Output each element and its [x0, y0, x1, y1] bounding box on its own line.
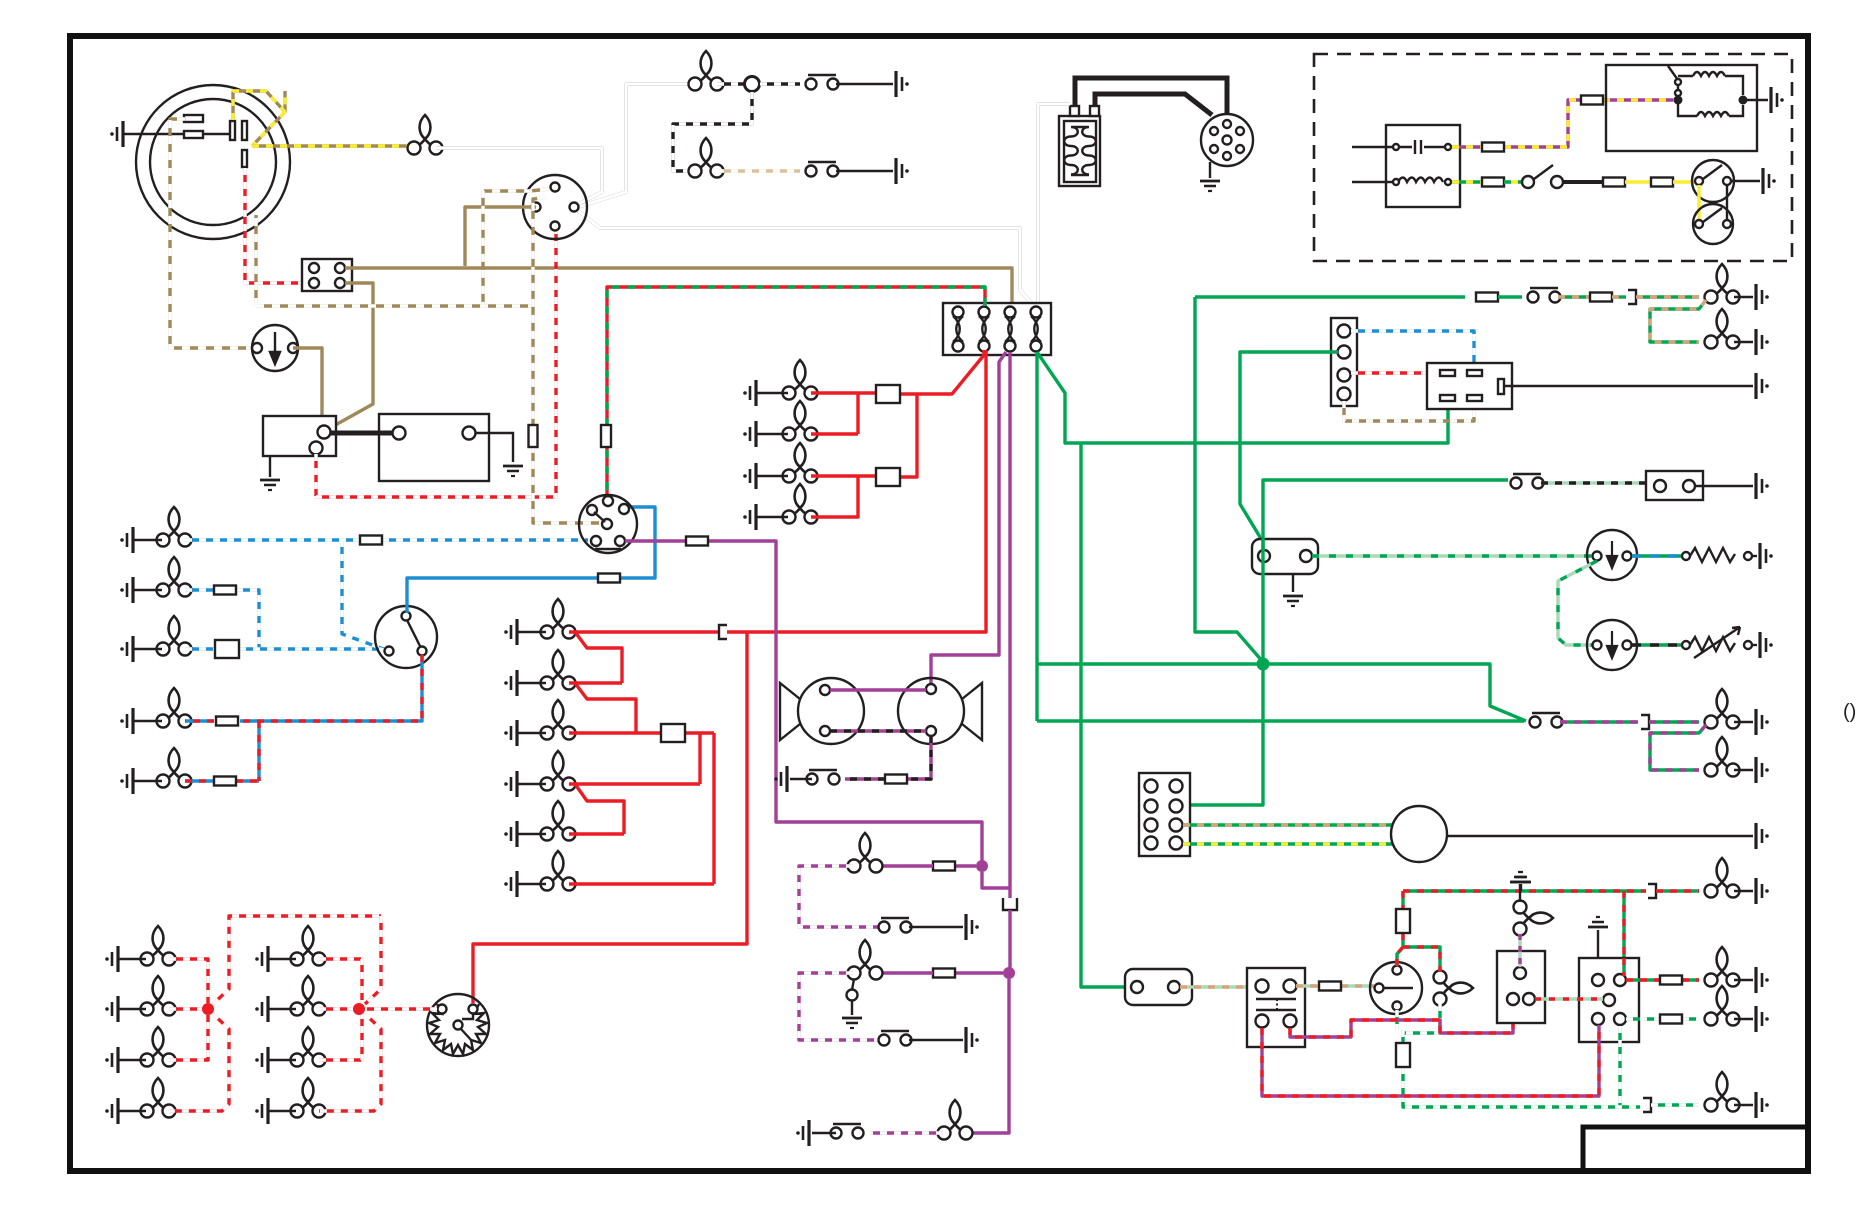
dip lower lever — [1703, 208, 1722, 222]
ignition switch IGN — [523, 175, 587, 239]
fuse A4 — [1031, 307, 1042, 352]
instrument pin bl — [591, 536, 601, 546]
title block — [1583, 1127, 1808, 1171]
lead head lamp C — [133, 648, 162, 650]
wire red/green fusebox to instrument feed — [607, 287, 985, 497]
panel lamp 3 — [783, 443, 818, 483]
chassis ground relay B — [1588, 917, 1608, 927]
wire green/tan 8way to tachometer — [1183, 823, 1392, 826]
ground fuel sender — [1760, 543, 1773, 569]
stop flasher pin L — [438, 1005, 447, 1014]
flasher coil pin L — [1393, 179, 1399, 185]
wire green/tan tail U-link — [1650, 300, 1706, 342]
wire red/white turn column left — [169, 916, 381, 1111]
wire brown/white dynamo F to warning lamp — [170, 119, 254, 348]
boot lamp switch — [831, 1124, 864, 1139]
ground head lamp A — [120, 527, 133, 553]
ground turn lamp mid R — [1756, 967, 1769, 993]
headlamp relay box — [1427, 363, 1512, 409]
coil windings — [1064, 127, 1096, 175]
distributor pin 2 — [1236, 145, 1244, 153]
fuel sender ground lead — [1752, 555, 1757, 557]
connector bulb dynamo output — [408, 115, 443, 155]
lead turn lamp L2 — [118, 1008, 146, 1010]
ground side lamp 4 — [504, 771, 517, 797]
wire red panel lamp bus — [811, 350, 984, 517]
wire brown control box to fusebox A3 — [345, 268, 1012, 306]
dynamo brush blade 2 — [242, 121, 247, 140]
wire green/blue fuel gauge to sender — [1632, 554, 1682, 557]
turn lamp front R ground lead — [1734, 890, 1753, 892]
dynamo brush blade 1 — [230, 121, 235, 140]
flasher relay box — [1247, 968, 1305, 1047]
headlamp dip unit lower — [1693, 204, 1733, 244]
lamp A switch ground lead — [909, 926, 963, 928]
distributor pin 5 — [1210, 127, 1218, 135]
tail lamp 2 ground lead — [1734, 341, 1753, 343]
wire green/red branch to relay B — [1622, 891, 1625, 974]
stop flasher pin C — [454, 1021, 463, 1030]
relay B pin tr — [1614, 974, 1626, 986]
lead turn lamp R1 — [268, 958, 296, 960]
inline fuse head B — [214, 586, 236, 595]
ignition switch pin bottom — [551, 222, 560, 231]
ground turn lamp L2 — [105, 996, 118, 1022]
dip switch pin bl — [385, 647, 394, 656]
lead turn lamp L3 — [118, 1059, 146, 1061]
inline fuse instrument feed — [601, 425, 611, 447]
wire purple/white boot lamp to switch — [870, 1131, 943, 1134]
lead side lamp 2 — [517, 682, 546, 684]
tail switch top — [1528, 288, 1561, 303]
8way hole 1L — [1145, 780, 1158, 793]
turn lamp low R ground lead — [1734, 1018, 1753, 1020]
interior switch — [1530, 713, 1563, 728]
flasher contact dots — [1276, 999, 1278, 1010]
wire mint stabilizer to fuel gauge — [1312, 554, 1592, 557]
wiper switch — [1511, 474, 1544, 489]
battery terminal R — [463, 427, 476, 440]
wire purple fuse to map lamp — [877, 971, 933, 974]
horn left terminal bottom — [820, 726, 830, 736]
stabilizer pin R — [1300, 550, 1312, 562]
ignition warning lamp WL1 — [252, 325, 298, 371]
horn left body — [798, 678, 864, 744]
wire blue instrument to dip switch — [407, 507, 655, 613]
ground tail lamp 1 — [1756, 284, 1769, 310]
horn right flare — [962, 683, 982, 740]
battery box — [379, 414, 489, 481]
ground head lamp E — [120, 768, 133, 794]
panel lamp 4 — [783, 484, 818, 524]
wire purple/red flasher to relays — [1262, 1005, 1599, 1096]
hazard contact pin b — [1675, 90, 1681, 96]
ground lamp A switch — [966, 914, 979, 940]
turn lamp R3 — [291, 1027, 326, 1067]
battery earth lead — [475, 433, 513, 462]
ground head lamp B — [120, 577, 133, 603]
stop flasher lever — [461, 1013, 473, 1041]
wire purple/black horn link bottom — [830, 731, 931, 779]
map lamp lever ground stem — [851, 1001, 853, 1015]
turn lamp R1 — [291, 926, 326, 966]
dip switch pin top — [402, 612, 411, 621]
ignition switch pin right — [570, 203, 579, 212]
dynamo terminal blade D — [184, 131, 203, 138]
fuse A2 — [979, 307, 990, 352]
voltage stabilizer box — [1252, 539, 1318, 574]
instrument pin br — [615, 536, 625, 546]
wire purple junction to horn relay branch — [982, 872, 1010, 888]
hazard relay coil bottom — [1678, 104, 1743, 116]
fuel gauge pin L — [1593, 552, 1602, 561]
lead side lamp 4 — [517, 783, 546, 785]
instrument bar — [595, 548, 621, 550]
bracket interior lamp — [1641, 715, 1649, 729]
ground side lamp 2 — [504, 670, 517, 696]
lead panel lamp 1 — [756, 392, 788, 394]
turn lamp rear R ground lead — [1734, 1104, 1753, 1106]
ground door switch 1 — [896, 71, 909, 97]
wire green/white relay B down — [1618, 1026, 1621, 1107]
ground side lamp 5 — [504, 821, 517, 847]
wire brown/white 4way to relay — [1344, 401, 1474, 421]
temp sender resistor — [1682, 627, 1752, 658]
side lamp 4 — [541, 751, 576, 791]
ground wiper — [1756, 473, 1769, 499]
dip switch pin br — [418, 647, 427, 656]
side lamp 2 — [541, 650, 576, 690]
ground horn switch — [774, 766, 787, 792]
control box terminal 2 — [335, 263, 345, 273]
map lamp lever contact — [847, 990, 858, 1001]
lead head lamp B — [133, 589, 162, 591]
head lamp E — [157, 748, 192, 788]
wire mint/red hazard to relay B — [1535, 997, 1603, 1000]
flasher cap pin R — [1445, 144, 1451, 150]
flasher unit box — [1386, 125, 1460, 207]
wire brown/white ignition to instrument connector b — [533, 197, 600, 523]
wire blue/red dipped beam — [185, 655, 422, 781]
turn lamp L2 — [141, 976, 176, 1016]
wire green/purple bracket to lamp — [1649, 720, 1699, 723]
side lamp 5 — [541, 801, 576, 841]
temp gauge pin L — [1593, 641, 1602, 650]
wire green top run to fuse — [1195, 295, 1465, 298]
flasher pin br — [1284, 1015, 1297, 1028]
dip switch lever — [407, 620, 420, 646]
dynamo D1 inner body — [150, 99, 276, 225]
flasher capacitor — [1398, 140, 1444, 154]
wire brown/white lamp2 to door switch 2 — [717, 169, 800, 172]
solenoid terminal ign — [310, 442, 323, 455]
ground dynamo — [110, 121, 123, 147]
wiper ground lead — [1695, 485, 1753, 487]
inline fuse turn feed — [1396, 909, 1410, 933]
ground interior lamp 1 — [1756, 709, 1769, 735]
lead panel lamp 3 — [756, 475, 788, 477]
dip upper pin L — [1695, 177, 1703, 185]
side lamp 6 — [541, 851, 576, 891]
bracket tail top — [1628, 290, 1636, 304]
inline fuse tail top — [1476, 293, 1498, 302]
4way hole 2 — [1338, 346, 1351, 359]
bracket side lamp feed — [719, 625, 727, 639]
dip upper pin R — [1723, 177, 1731, 185]
8way hole 3R — [1170, 819, 1183, 832]
4way hole 1 — [1338, 325, 1351, 338]
ground turn lamp L3 — [105, 1047, 118, 1073]
flasher pin tr — [1284, 980, 1297, 993]
distributor pin 1 — [1236, 127, 1244, 135]
turn switch pin T — [1393, 966, 1402, 975]
relay blade tr — [1467, 370, 1482, 376]
boot switch ground lead — [812, 1132, 836, 1134]
hazard switch box — [1497, 951, 1545, 1023]
chassis ground stabilizer — [1283, 596, 1303, 606]
head lamp C — [157, 616, 192, 656]
junction dot purple 1 — [976, 860, 988, 872]
flasher cap pin L — [1393, 144, 1399, 150]
wire green/purple switch to bracket — [1560, 720, 1638, 723]
bracket turn lamp rear — [1643, 1098, 1651, 1112]
wire purple/yellow flasher to hazard relay — [1452, 100, 1674, 147]
wire brown warning lamp to solenoid — [293, 348, 322, 424]
inline fuse lamp A — [933, 862, 955, 871]
lead switch2 to ground — [836, 170, 893, 172]
lead side lamp 5 — [517, 833, 546, 835]
door switch 1 — [806, 75, 839, 90]
wire green/red turn feed — [1397, 891, 1440, 972]
inset switch lever — [1534, 165, 1553, 179]
junction dot turn right — [353, 1003, 365, 1015]
fuse A3 — [1005, 307, 1016, 352]
hazard pin BL — [1507, 993, 1519, 1005]
horn right terminal top — [926, 684, 936, 694]
inline fuse side lamps — [661, 724, 685, 742]
wire purple/black fuse to horn switch — [845, 777, 885, 780]
turn indicator warning lamp — [1434, 971, 1474, 1006]
inline fuse turn switch — [1319, 982, 1341, 991]
fuel pump pin L — [1131, 981, 1143, 993]
instrument pin top — [603, 496, 613, 506]
ground relay — [1756, 373, 1769, 399]
connector block 8way — [1139, 773, 1190, 856]
relay B pin br — [1614, 1013, 1626, 1025]
inset switch black lead — [1563, 180, 1603, 184]
headlamp dip unit upper — [1692, 160, 1734, 202]
wire purple dot2 to boot lamp — [973, 979, 1009, 1133]
wire purple/white lamp A loop — [799, 866, 883, 927]
turn lamp low R — [1705, 986, 1740, 1026]
wiper pin L — [1654, 480, 1666, 492]
wire black/white junction to door switch 1 — [760, 82, 800, 85]
wire green riser tail feed — [1195, 297, 1263, 662]
8way hole 1R — [1170, 780, 1183, 793]
turn switch pin B — [1393, 1002, 1402, 1011]
hazard relay contact — [1668, 66, 1678, 96]
hazard pin T — [1514, 967, 1526, 979]
lead side lamp 3 — [517, 732, 546, 734]
svg-text:(): () — [1843, 701, 1856, 723]
dip ground lead — [1731, 180, 1760, 182]
turn switch lever — [1384, 987, 1413, 989]
inline fuse inset 5 — [1651, 178, 1673, 187]
lead turn lamp R2 — [268, 1008, 296, 1010]
ground hazard relay — [1771, 87, 1784, 113]
horn right body — [898, 678, 964, 744]
wire purple connector to dot2 — [1008, 910, 1011, 968]
wire green/black temp gauge to sender — [1632, 643, 1682, 646]
distributor pin 4 — [1210, 145, 1218, 153]
ignition switch pin top — [551, 183, 560, 192]
inline fuse tail top 2 — [1590, 293, 1612, 302]
interior lamp A — [848, 833, 883, 873]
relay blade bl — [1440, 395, 1455, 401]
turn lamp rear R — [1705, 1072, 1740, 1112]
flasher coil — [1398, 178, 1443, 183]
warning lamp terminal L — [252, 343, 262, 353]
control box terminal 1 — [309, 263, 319, 273]
fuel gauge — [1587, 530, 1637, 580]
ground turn lamp R4 — [255, 1098, 268, 1124]
relay blade br — [1467, 395, 1482, 401]
lead head lamp D — [133, 720, 162, 722]
interior lamp 2 ground lead — [1734, 769, 1753, 771]
wire black/white junction to lamp 2 — [673, 92, 752, 171]
inline fuse panel lamps b — [876, 468, 900, 486]
inline fuse purple feed — [686, 537, 708, 546]
inline fuse instrument brown feed — [529, 425, 538, 447]
wire green fusebox trunk — [1037, 352, 1448, 721]
relay B pin m — [1603, 994, 1615, 1006]
wire green/white bracket to rear lamp — [1651, 1103, 1699, 1106]
instrument pin ur — [619, 504, 629, 514]
panel lamp 1 — [783, 360, 818, 400]
tachometer ground lead — [1447, 835, 1753, 837]
inset switch contact a — [1522, 176, 1534, 188]
distributor — [1201, 114, 1253, 166]
lead turn lamp R4 — [268, 1110, 296, 1112]
lead head lamp E — [133, 780, 162, 782]
4way hole 4 — [1338, 388, 1351, 401]
wire white ignition switch to fusebox — [576, 209, 1033, 305]
horn left flare — [780, 683, 800, 740]
ground side lamp 3 — [504, 720, 517, 746]
ground turn lamp R1 — [255, 946, 268, 972]
wire white ignition switch to panel lamp — [578, 84, 695, 207]
wire black/white lamp1 to junction — [717, 82, 744, 85]
wire red/white turn column right — [319, 916, 381, 1111]
ground dip unit — [1763, 168, 1776, 194]
ground panel lamp 3 — [743, 463, 756, 489]
relay B box — [1579, 958, 1639, 1042]
relay B ground stem — [1597, 930, 1599, 958]
turn lamp mid R ground lead — [1734, 979, 1753, 981]
hazard pin BR — [1523, 993, 1535, 1005]
dip lower pin L — [1695, 220, 1703, 228]
chassis ground map lamp — [842, 1018, 862, 1028]
fuel pump pin R — [1168, 981, 1180, 993]
junction dot green — [1257, 658, 1270, 671]
stabilizer pin L — [1258, 550, 1270, 562]
junction dot purple 2 — [1003, 967, 1015, 979]
horn right terminal bottom — [926, 726, 936, 736]
ignition switch pin left — [532, 203, 541, 212]
lead turn lamp R3 — [268, 1059, 296, 1061]
solenoid ground stem — [269, 456, 271, 477]
instrument pin ul — [587, 505, 597, 515]
hazard lamp ground stem — [1519, 884, 1521, 902]
8way hole 2L — [1145, 800, 1158, 813]
wire brown/white ignition to instrument connector a — [483, 189, 548, 306]
wire purple instrument to junction — [625, 541, 982, 862]
wire brown/white bus to coil — [256, 215, 533, 306]
fuel pump box — [1125, 969, 1192, 1005]
wire red stop flasher feed — [473, 632, 747, 1003]
inset switch contact b — [1551, 176, 1563, 188]
dip switch — [375, 606, 437, 668]
map lamp switch lever — [852, 979, 854, 990]
fuel gauge pin R — [1623, 552, 1632, 561]
flasher lead 2 — [1352, 181, 1392, 183]
wire purple dot2 to map lamp — [956, 971, 1003, 974]
ground turn lamp L1 — [105, 946, 118, 972]
head lamp A — [157, 507, 192, 547]
ground turn lamp front R — [1756, 878, 1769, 904]
side lamp 1 — [541, 599, 576, 639]
hazard junction dot R — [1739, 96, 1748, 105]
ground head lamp C — [120, 636, 133, 662]
wire green fuse to switch — [1498, 295, 1522, 298]
side lamp 3 — [541, 700, 576, 740]
wire mint/purple hazard lamp to switch — [1518, 934, 1521, 967]
lead side lamp 6 — [517, 883, 546, 885]
wire red/white dynamo to control box — [245, 168, 310, 283]
wiper motor box — [1646, 471, 1703, 500]
fuel sender resistor — [1682, 548, 1752, 562]
flasher coil pin R — [1445, 179, 1451, 185]
inline fuse head C — [215, 640, 239, 658]
turn lamp front R — [1705, 858, 1740, 898]
courtesy lamp row 1 — [689, 51, 724, 91]
inline fuse lamp mid R — [1660, 976, 1682, 985]
turn lamp R4 — [291, 1078, 326, 1118]
dynamo D1 outer — [136, 85, 290, 239]
inline fuse inset 3 — [1482, 178, 1504, 187]
bracket turn lamp 1 — [1648, 884, 1656, 898]
warning lamp terminal R — [288, 343, 298, 353]
cable battery to solenoid — [330, 431, 393, 436]
tail lamp 1 — [1705, 264, 1740, 304]
hazard contact pin a — [1675, 79, 1681, 85]
wire yellow dip link — [1697, 185, 1700, 220]
courtesy lamp row 2 — [689, 138, 724, 178]
wire mint/green stabilizer link to temp gauge — [1558, 561, 1597, 645]
wire green/tan bracket to tail lamp 1 — [1636, 295, 1699, 298]
ground door switch 2 — [896, 158, 909, 184]
cable coil HT to distributor — [1095, 94, 1212, 115]
wire green 4way feed — [1240, 352, 1338, 551]
inline fuse inset 1 — [1482, 143, 1504, 152]
inline fuse switch bottom — [1396, 1043, 1410, 1067]
head lamp D — [157, 688, 192, 728]
junction connector J1 — [745, 77, 760, 92]
wire mint/tan flasher to turn switch — [1296, 984, 1374, 987]
stop flasher unit — [427, 994, 489, 1056]
wire purple dot1 to panel lamp A — [956, 864, 976, 867]
8way hole 2R — [1170, 800, 1183, 813]
